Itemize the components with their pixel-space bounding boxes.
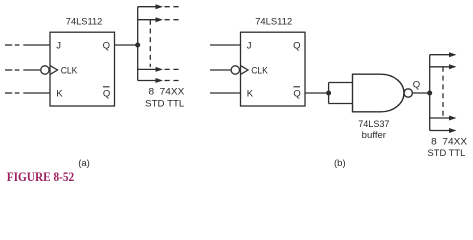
svg-text:J: J — [56, 40, 61, 51]
svg-text:Q: Q — [103, 40, 110, 51]
svg-text:STD TTL: STD TTL — [428, 148, 466, 159]
svg-text:STD TTL: STD TTL — [145, 98, 184, 109]
svg-text:Q: Q — [293, 88, 300, 99]
svg-text:Q: Q — [413, 80, 420, 91]
svg-text:Q: Q — [103, 88, 110, 99]
svg-text:74LS112: 74LS112 — [66, 17, 103, 28]
svg-text:8 74XX: 8 74XX — [431, 137, 468, 148]
svg-text:74LS37: 74LS37 — [358, 119, 389, 130]
svg-text:K: K — [247, 88, 254, 99]
svg-text:FIGURE 8-52: FIGURE 8-52 — [7, 169, 75, 184]
svg-text:CLK: CLK — [251, 65, 268, 76]
svg-text:CLK: CLK — [61, 65, 78, 76]
svg-text:Q: Q — [293, 40, 300, 51]
svg-text:(b): (b) — [334, 158, 346, 169]
svg-text:K: K — [56, 88, 63, 99]
svg-text:8 74XX: 8 74XX — [149, 87, 185, 98]
svg-text:J: J — [247, 40, 252, 51]
svg-text:buffer: buffer — [362, 130, 386, 141]
svg-text:74LS112: 74LS112 — [255, 17, 292, 28]
svg-text:(a): (a) — [78, 158, 90, 169]
